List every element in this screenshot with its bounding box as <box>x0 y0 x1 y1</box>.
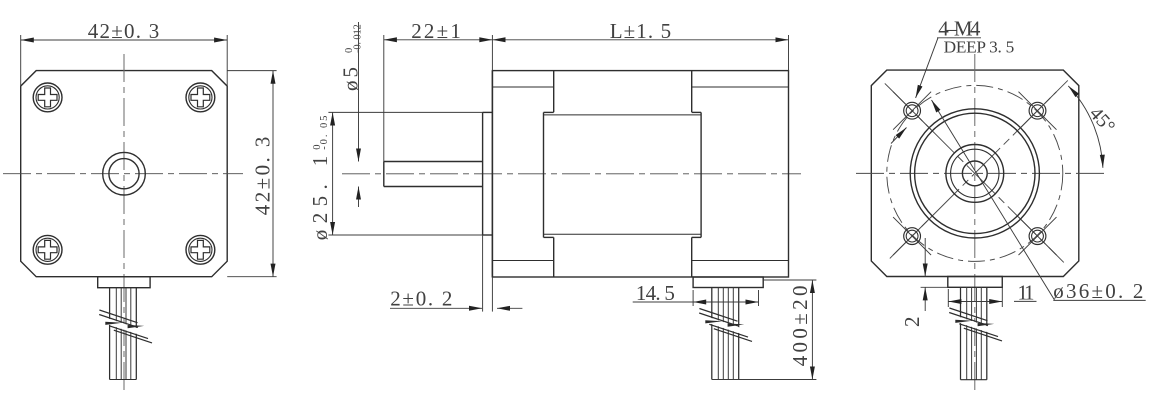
svg-text:2±0. 2: 2±0. 2 <box>390 287 452 311</box>
lead wires rear view <box>961 287 987 379</box>
svg-text:22±1: 22±1 <box>411 19 461 43</box>
wire break symbol rear view <box>949 308 1002 341</box>
stator label bottom line <box>544 233 702 235</box>
leader dia36 <box>932 100 1055 300</box>
hub ring inner <box>951 149 999 197</box>
horizontal centerline of front view <box>3 173 243 175</box>
dimension line 11 <box>948 301 1002 303</box>
mounting hole M4 top-left <box>893 92 931 130</box>
dia5 dimension lower arrow <box>358 187 360 208</box>
extension line right for width dim <box>226 35 228 86</box>
front shaft hole circle <box>109 159 139 189</box>
front cap chamfer line top <box>492 86 553 88</box>
wire length extension top <box>763 279 816 281</box>
dimension line 14.5 <box>693 301 758 303</box>
output shaft tip edge <box>383 162 385 187</box>
lead wires front view <box>110 288 137 380</box>
hub ring outer <box>946 145 1004 203</box>
mounting hole M4 top-right <box>1019 92 1057 130</box>
screw bottom-left <box>33 235 62 264</box>
lead wires side view <box>712 288 739 380</box>
vertical centerline of front view <box>123 54 125 392</box>
dimension line 22 <box>384 39 493 41</box>
dia25.1 text <box>308 116 332 241</box>
dimension line 42 top <box>21 39 228 41</box>
extension 14.5 left <box>692 290 694 306</box>
dimension line dia25.1 <box>332 112 334 235</box>
stator block bottom steps <box>544 236 554 238</box>
stator block left edge <box>543 112 545 237</box>
svg-text:2: 2 <box>900 317 924 328</box>
front cap chamfer line bottom <box>492 260 553 262</box>
small arrow on bolt circle <box>891 128 907 144</box>
rear cap chamfer line bottom <box>692 260 789 262</box>
motor body outline side view <box>492 71 788 277</box>
extension 11 right <box>1001 277 1003 307</box>
rear cap joint lower <box>691 237 693 277</box>
extension gearbox face up <box>491 35 493 71</box>
pilot boss circle inner <box>915 113 1035 233</box>
dimension line 42 right <box>272 71 274 277</box>
diagonal centerline NE-SW <box>890 80 1068 258</box>
rear cap joint upper <box>691 71 693 113</box>
gearbox face extension down <box>491 277 493 312</box>
wire connector block rear view <box>948 277 1003 288</box>
front cap joint upper <box>553 71 555 113</box>
extension 11 left <box>947 289 949 307</box>
svg-text:L±1. 5: L±1. 5 <box>610 19 671 43</box>
svg-text:ø36±0. 2: ø36±0. 2 <box>1053 279 1143 303</box>
screw top-left <box>33 83 62 112</box>
pilot boss circle outer <box>910 109 1039 238</box>
screw bottom-right <box>186 235 215 264</box>
diagonal centerline NW-SE <box>885 83 1064 262</box>
horizontal centerline rear view <box>856 172 1106 174</box>
dimension 2 lower arrow <box>924 287 926 311</box>
extension line top for height dim <box>227 70 276 72</box>
dimension 2+-0.2 leader <box>390 307 482 309</box>
extension 14.5 right <box>758 290 760 306</box>
dimension 2 upper arrow <box>924 238 926 277</box>
mounting hole M4 bottom-right <box>1019 217 1057 255</box>
stator block top steps <box>544 111 554 113</box>
rear cap chamfer line top <box>692 86 789 88</box>
wire break symbol side view <box>699 309 752 342</box>
wire connector block side view <box>693 277 763 288</box>
pilot boss front face <box>482 112 484 235</box>
pilot boss top edge <box>483 111 493 113</box>
extension shaft tip <box>383 35 385 162</box>
front hub outer circle <box>103 152 146 195</box>
bolt circle dia36 dashed <box>887 85 1063 261</box>
svg-text:-0. 05: -0. 05 <box>319 116 330 150</box>
front cap joint lower <box>553 237 555 277</box>
extension line left for width dim <box>20 35 22 86</box>
wire break symbol front view <box>99 310 152 343</box>
rear-view motor body square with chamfered corners <box>871 70 1079 276</box>
stator label top line <box>544 114 702 116</box>
shaft circle rear view <box>962 161 987 186</box>
extension rear face up <box>788 35 790 71</box>
mounting hole M4 bottom-left <box>893 217 931 255</box>
dia5 dimension upper arrow <box>358 22 360 162</box>
gearbox front face line <box>491 71 493 277</box>
extension line bottom for height dim <box>227 276 276 278</box>
side-view centerline <box>342 173 801 175</box>
front-view motor body square 42x42 with chamfered corners <box>21 71 228 277</box>
vertical centerline rear view <box>974 54 976 392</box>
extension 2 bottom <box>921 286 948 288</box>
stator block right edge <box>700 112 702 237</box>
screw top-right <box>186 83 215 112</box>
dia25.1 extension bottom <box>328 234 482 236</box>
boss face extension down <box>482 235 484 312</box>
output shaft bottom line <box>384 186 483 188</box>
svg-text:DEEP 3. 5: DEEP 3. 5 <box>944 37 1015 56</box>
wire connector block front view <box>98 277 150 288</box>
45 degree arc dimension <box>1068 86 1103 168</box>
leader 4-M4 to hole <box>916 38 938 98</box>
dia5 text <box>339 24 364 91</box>
dimension 2+-0.2 right tail <box>497 307 522 309</box>
dia25.1 extension top <box>328 111 482 113</box>
dimension line L <box>492 39 788 41</box>
pilot boss bottom edge <box>483 234 493 236</box>
output shaft top line <box>384 161 483 163</box>
wire length extension bottom <box>712 379 817 381</box>
svg-text:-0. 012: -0. 012 <box>353 24 364 53</box>
dimension line 400 <box>811 280 813 380</box>
